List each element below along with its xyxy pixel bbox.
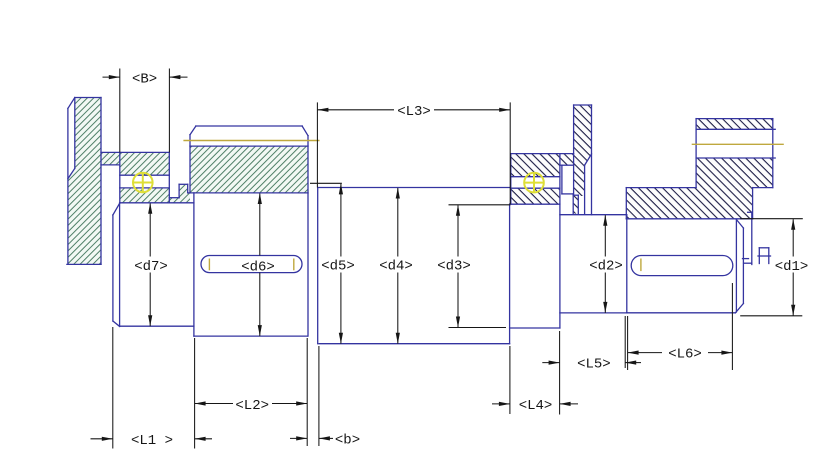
svg-text:<d2>: <d2> <box>589 259 623 275</box>
svg-text:<L5>: <L5> <box>577 357 611 373</box>
svg-text:<L6>: <L6> <box>668 346 702 362</box>
svg-text:<B>: <B> <box>132 72 157 88</box>
svg-text:<d4>: <d4> <box>379 259 413 275</box>
svg-text:<L1 >: <L1 > <box>131 433 173 449</box>
svg-text:<L4>: <L4> <box>519 398 553 414</box>
svg-text:<b>: <b> <box>335 432 360 448</box>
svg-text:<L2>: <L2> <box>235 398 269 414</box>
svg-text:<L3>: <L3> <box>397 104 431 120</box>
svg-text:<d5>: <d5> <box>321 259 355 275</box>
svg-text:<d6>: <d6> <box>241 259 275 275</box>
svg-text:<d3>: <d3> <box>437 259 471 275</box>
svg-text:<d7>: <d7> <box>134 259 168 275</box>
svg-text:<d1>: <d1> <box>775 259 809 275</box>
